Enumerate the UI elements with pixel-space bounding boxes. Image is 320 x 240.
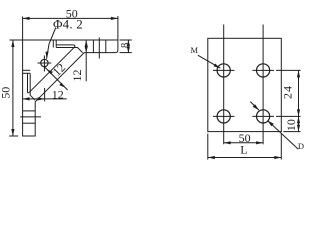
svg-text:D: D	[298, 141, 304, 151]
svg-text:L: L	[240, 143, 247, 157]
svg-text:10: 10	[284, 119, 298, 131]
svg-text:12: 12	[70, 70, 84, 82]
svg-text:8: 8	[120, 43, 131, 48]
svg-text:Φ4. 2: Φ4. 2	[53, 16, 83, 31]
svg-text:50: 50	[0, 87, 13, 99]
svg-text:12: 12	[52, 88, 64, 102]
svg-text:M: M	[191, 45, 199, 55]
svg-text:24: 24	[281, 85, 295, 99]
svg-text:12: 12	[50, 60, 68, 78]
